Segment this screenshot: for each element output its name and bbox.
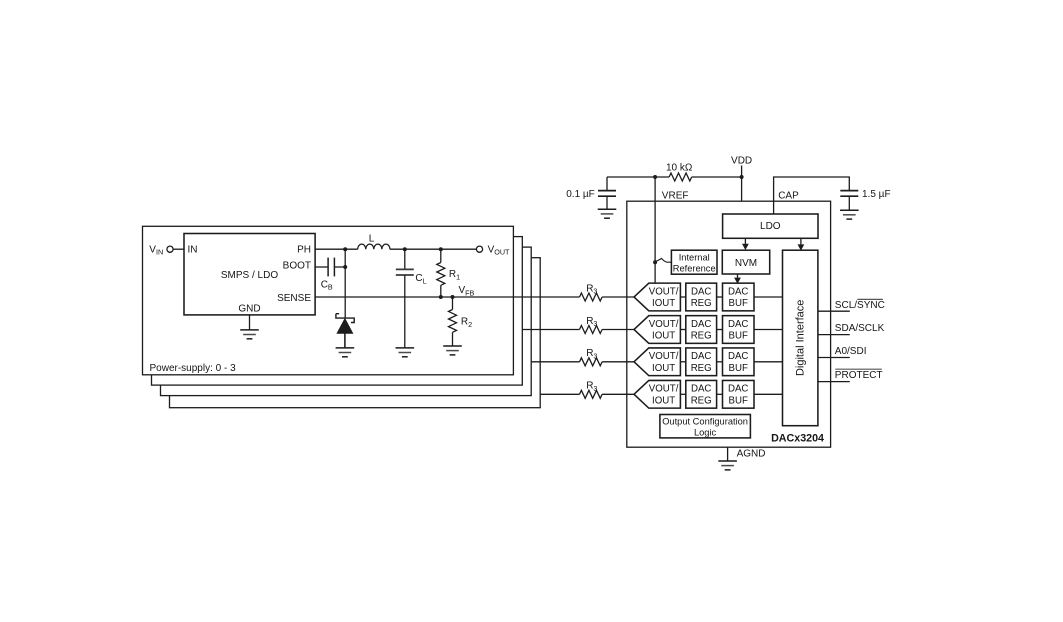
svg-text:DAC: DAC [691, 319, 711, 330]
wire L to VOUT [390, 248, 477, 250]
VOUT/IOUT buffer row 2 [634, 348, 680, 376]
pin A0/SDI [818, 357, 850, 359]
VOUT/IOUT buffer row 1 [634, 316, 680, 344]
svg-text:Digital Interface: Digital Interface [794, 300, 806, 376]
wire BOOT to CB [315, 266, 328, 268]
svg-text:DAC: DAC [691, 286, 711, 297]
svg-text:VOUT/: VOUT/ [649, 384, 679, 395]
wire row 1 [717, 329, 723, 331]
wire R3 to VOUT/IOUT row 2 [602, 361, 634, 363]
Output Configuration Logic block [660, 415, 751, 438]
wire row 3 [717, 393, 723, 395]
wire row 3 to digital interface [754, 393, 783, 395]
svg-text:DAC: DAC [728, 351, 748, 362]
DAC BUF block row 2 [723, 348, 755, 376]
node VDD [740, 175, 744, 179]
svg-text:VDD: VDD [731, 155, 752, 166]
wire R3 to VOUT/IOUT row 0 [602, 296, 634, 298]
svg-text:VOUT/: VOUT/ [649, 351, 679, 362]
wire GND pin [249, 315, 251, 330]
node R2 top [451, 295, 455, 299]
svg-text:DACx3204: DACx3204 [771, 432, 824, 444]
wire CB to switch node [334, 266, 345, 268]
DAC BUF block row 1 [723, 316, 755, 344]
inductor L [358, 244, 390, 249]
wire 10k to VDD [692, 176, 742, 178]
DAC BUF block row 0 [723, 283, 755, 311]
svg-text:DAC: DAC [728, 384, 748, 395]
svg-text:Power-supply: 0 - 3: Power-supply: 0 - 3 [150, 363, 237, 374]
power-supply box 1 [152, 237, 523, 386]
svg-text:DAC: DAC [728, 286, 748, 297]
resistor R3 row 2 [580, 358, 603, 366]
svg-text:BUF: BUF [729, 395, 748, 406]
svg-text:1.5 µF: 1.5 µF [862, 189, 891, 200]
resistor R2 [452, 297, 454, 310]
wire feedback row 1 [522, 329, 579, 331]
capacitor 1.5 uF [840, 191, 858, 197]
ground at diode [336, 348, 355, 357]
wire row 0 to digital interface [754, 296, 783, 298]
wire row 0 [680, 296, 685, 298]
pin SCL/SYNC [818, 310, 850, 312]
DAC REG block row 2 [686, 348, 717, 376]
pin AGND [727, 447, 729, 461]
node R1 bottom / VFB [439, 295, 443, 299]
svg-text:Internal: Internal [679, 252, 710, 262]
NVM block [722, 250, 769, 274]
svg-text:BOOT: BOOT [283, 261, 311, 272]
resistor R3 row 3 [580, 390, 603, 398]
Internal Reference block [671, 250, 717, 274]
svg-text:PH: PH [297, 244, 311, 255]
svg-text:SCL/SYNC: SCL/SYNC [835, 300, 885, 311]
svg-text:DAC: DAC [691, 384, 711, 395]
svg-text:IOUT: IOUT [652, 331, 675, 342]
svg-text:Output Configuration: Output Configuration [662, 417, 748, 427]
DAC BUF block row 3 [723, 380, 755, 408]
svg-text:SENSE: SENSE [277, 293, 311, 304]
power-supply box 0 (front) [143, 226, 514, 374]
svg-text:VREF: VREF [662, 191, 689, 202]
resistor R3 row 1 [580, 326, 603, 334]
wire feedback row 0 [315, 296, 579, 298]
terminal VOUT [476, 246, 482, 252]
svg-text:10 kΩ: 10 kΩ [666, 162, 693, 173]
wire row 3 [680, 393, 685, 395]
wire CL to ground [404, 275, 406, 348]
diode D1 (Schottky) [336, 314, 354, 323]
svg-text:REG: REG [691, 363, 712, 374]
resistor R1 [440, 249, 442, 262]
terminal VIN [167, 246, 173, 252]
svg-text:REG: REG [691, 298, 712, 309]
svg-text:AGND: AGND [737, 448, 766, 459]
node internal reference switch [653, 260, 657, 264]
svg-text:VOUT/: VOUT/ [649, 319, 679, 330]
svg-text:LDO: LDO [760, 221, 781, 232]
DAC REG block row 1 [686, 316, 717, 344]
wire diode anode to ground [344, 333, 346, 348]
svg-text:IOUT: IOUT [652, 298, 675, 309]
arrow NVM to DAC BUF [737, 274, 739, 279]
svg-text:DAC: DAC [728, 319, 748, 330]
wire feedback row 2 [531, 361, 579, 363]
svg-text:SDA/SCLK: SDA/SCLK [835, 323, 885, 334]
ground at 1.5uF [840, 210, 859, 219]
wire VREF drop [654, 177, 656, 283]
SMPS / LDO block U1 [184, 234, 315, 315]
wire row 2 [680, 361, 685, 363]
pin PROTECT [818, 381, 850, 383]
overline SYNC [857, 298, 883, 300]
wire R3 to VOUT/IOUT row 3 [602, 393, 634, 395]
wire VIN to IN [173, 248, 184, 250]
net CAP wire [774, 177, 850, 214]
wire PH to switch node [315, 248, 358, 250]
svg-text:REG: REG [691, 395, 712, 406]
wire switch node down to diode [344, 249, 346, 318]
svg-text:L: L [369, 233, 375, 244]
svg-text:VOUT/: VOUT/ [649, 286, 679, 297]
ground at GND pin [240, 330, 259, 339]
DAC REG block row 0 [686, 283, 717, 311]
node CL top [403, 247, 407, 251]
LDO block [723, 214, 818, 238]
svg-text:IN: IN [188, 244, 198, 255]
wire feedback row 3 [540, 393, 579, 395]
wire row 1 [680, 329, 685, 331]
node VREF tap [653, 175, 657, 179]
svg-text:PROTECT: PROTECT [835, 370, 883, 381]
power-supply box 3 (back of stack) [170, 258, 541, 408]
DAC REG block row 3 [686, 380, 717, 408]
svg-text:Reference: Reference [673, 263, 716, 273]
resistor 10 kOhm [669, 173, 692, 181]
VOUT/IOUT buffer row 3 [634, 380, 680, 408]
capacitor CL [404, 249, 406, 269]
svg-text:SMPS / LDO: SMPS / LDO [221, 270, 278, 281]
pin SDA/SCLK [818, 334, 850, 336]
svg-text:BUF: BUF [729, 298, 748, 309]
svg-text:GND: GND [238, 304, 260, 315]
svg-text:IOUT: IOUT [652, 363, 675, 374]
wire R3 to VOUT/IOUT row 1 [602, 329, 634, 331]
capacitor CB [328, 258, 334, 277]
wire row 1 to digital interface [754, 329, 783, 331]
svg-text:BUF: BUF [729, 331, 748, 342]
VOUT/IOUT buffer row 0 [634, 283, 680, 311]
svg-text:Logic: Logic [694, 427, 717, 437]
ground at 0.1uF [598, 209, 617, 218]
wire row 0 [717, 296, 723, 298]
ground at R2 [443, 346, 462, 355]
power-supply box 2 [161, 247, 532, 396]
svg-text:REG: REG [691, 331, 712, 342]
node CB junction [343, 265, 347, 269]
Digital Interface block [783, 250, 818, 426]
svg-text:A0/SDI: A0/SDI [835, 346, 867, 357]
wire row 2 to digital interface [754, 361, 783, 363]
arrow LDO to Digital Interface [800, 238, 802, 245]
svg-text:BUF: BUF [729, 363, 748, 374]
svg-text:DAC: DAC [691, 351, 711, 362]
overline PROTECT [835, 368, 882, 370]
node R1 top [439, 247, 443, 251]
svg-text:CAP: CAP [778, 191, 799, 202]
resistor R3 row 0 [580, 293, 603, 301]
svg-text:NVM: NVM [735, 258, 757, 269]
switch to internal reference [656, 259, 672, 263]
capacitor 0.1 uF [606, 177, 608, 191]
DACx3204 block outline [627, 201, 831, 447]
arrow LDO to NVM [744, 238, 746, 244]
svg-text:IOUT: IOUT [652, 395, 675, 406]
ground at CL [396, 348, 415, 357]
node PH switch junction [343, 247, 347, 251]
ground at AGND [718, 461, 737, 470]
svg-text:0.1 µF: 0.1 µF [566, 189, 595, 200]
wire row 2 [717, 361, 723, 363]
wire 0.1uF cap to 10k resistor [607, 176, 669, 178]
